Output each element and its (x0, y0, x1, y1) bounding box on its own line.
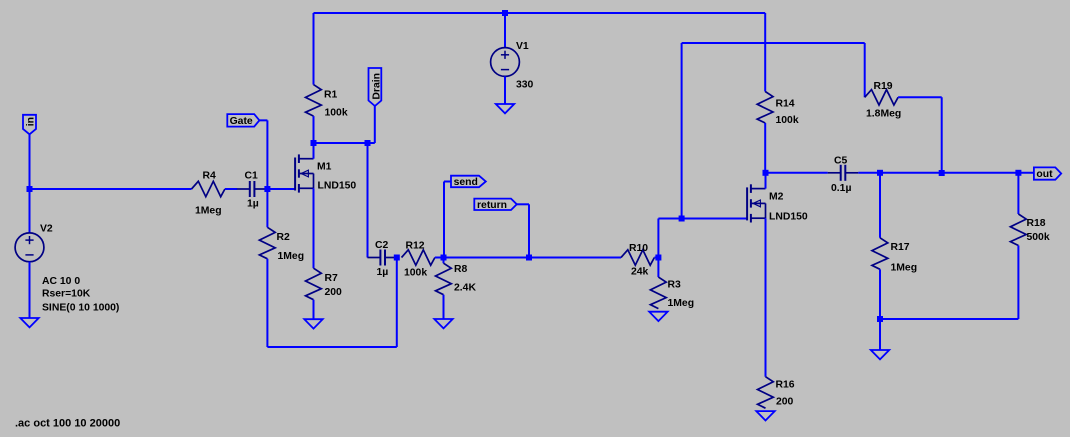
label R7 (325, 273, 339, 284)
label R1 (324, 90, 338, 101)
voltage source V2 (15, 233, 44, 262)
svg-text:100k: 100k (776, 115, 799, 126)
label R16 (776, 380, 795, 391)
svg-text:LND150: LND150 (769, 212, 808, 223)
wire R14 bottom lead (764, 123, 766, 173)
node R17 bottom junction (877, 316, 883, 322)
svg-text:return: return (477, 200, 507, 211)
value Rser=10K (42, 289, 91, 300)
wire M1 source lead (313, 188, 315, 268)
label R2 (277, 232, 291, 243)
wire C1 node to R2 (266, 189, 268, 227)
wire R12 to node (435, 257, 444, 259)
svg-text:SINE(0 10 1000): SINE(0 10 1000) (42, 303, 119, 314)
svg-text:1Meg: 1Meg (195, 206, 222, 217)
value 1Meg R17 (891, 263, 918, 274)
transistor M2 (747, 184, 765, 222)
node M2 gate junction (679, 216, 685, 222)
wire input to R4 (30, 188, 192, 190)
ground R17 (871, 350, 889, 359)
ground R3 (649, 312, 667, 321)
wire mid rail (444, 257, 622, 259)
svg-text:V1: V1 (516, 41, 529, 52)
node return junction (526, 255, 532, 261)
wire send down (443, 182, 445, 258)
resistor R1 (306, 85, 322, 117)
wire M1 drain lead (313, 143, 315, 159)
directive .ac (15, 418, 120, 430)
value 1Meg R3 (668, 298, 695, 309)
label R12 (406, 241, 425, 252)
svg-text:C2: C2 (375, 240, 389, 251)
node drain branch junction (365, 140, 371, 146)
label R3 (668, 280, 682, 291)
wire R14 top lead (764, 13, 766, 92)
svg-text:M1: M1 (317, 162, 332, 173)
wire M2 source lead (765, 218, 767, 377)
wire to gate junction (658, 218, 681, 220)
value 1.8Meg R19 (866, 109, 901, 120)
node R17 junction (877, 170, 883, 176)
value 500k R18 (1027, 232, 1050, 243)
svg-text:Rser=10K: Rser=10K (42, 289, 91, 300)
svg-text:in: in (25, 117, 36, 126)
value 1u C1 (247, 199, 259, 210)
svg-text:R1: R1 (324, 90, 338, 101)
wire R8 to ground (443, 295, 445, 319)
value 1u C2 (377, 267, 389, 278)
wire C5 to out node (858, 172, 1034, 174)
wire R19 left lead (864, 43, 866, 97)
svg-text:1.8Meg: 1.8Meg (866, 109, 901, 120)
svg-text:1µ: 1µ (247, 199, 259, 210)
svg-text:.ac oct 100 10 20000: .ac oct 100 10 20000 (15, 418, 120, 430)
svg-text:Gate: Gate (230, 116, 253, 127)
svg-text:R7: R7 (325, 273, 339, 284)
wire R1 top lead (313, 13, 315, 85)
capacitor C5 (828, 165, 859, 181)
resistor R3 (650, 277, 666, 309)
resistor R7 (306, 268, 322, 300)
node C2 junction (394, 255, 400, 261)
value 330 (516, 80, 534, 91)
svg-text:1Meg: 1Meg (891, 263, 918, 274)
wire R3 top lead (657, 258, 659, 278)
wire V2 top lead (29, 189, 31, 233)
svg-text:M2: M2 (769, 192, 784, 203)
flag Drain (369, 68, 383, 106)
flag in (23, 115, 36, 135)
wire gate junction up (681, 43, 683, 219)
wire R3 node up (657, 219, 659, 258)
wire M2 gate lead (682, 218, 748, 220)
node R19 junction (939, 170, 945, 176)
value LND150 M1 (318, 181, 357, 192)
label R10 (629, 243, 648, 254)
svg-text:R10: R10 (629, 243, 648, 254)
label R4 (203, 171, 217, 182)
wire R17 top lead (879, 173, 881, 238)
wire V2 bottom lead (29, 262, 31, 318)
capacitor C1 (237, 181, 268, 197)
value LND150 M2 (769, 212, 808, 223)
wire feedback rail (682, 42, 865, 44)
wire Drain flag pole (374, 106, 376, 143)
wire return down (528, 204, 530, 257)
value SINE(0 10 1000) (42, 303, 119, 314)
wire V1 top lead (504, 13, 506, 48)
resistor R8 (436, 263, 452, 295)
value 100k R14 (776, 115, 799, 126)
value 0.1u C5 (831, 183, 851, 194)
label V2 (40, 224, 53, 235)
svg-text:Drain: Drain (371, 73, 382, 100)
label C5 (834, 156, 848, 167)
wire R17 ground lead (879, 319, 881, 350)
svg-text:0.1µ: 0.1µ (831, 183, 851, 194)
wire R7 to ground (313, 300, 315, 320)
svg-text:R8: R8 (454, 264, 468, 275)
svg-text:R14: R14 (776, 99, 795, 110)
node M1 drain junction (311, 140, 317, 146)
resistor R10 (621, 250, 654, 265)
svg-text:200: 200 (776, 397, 794, 408)
wire R18 top lead (1017, 173, 1019, 214)
value 200 R16 (776, 397, 794, 408)
svg-text:1Meg: 1Meg (278, 251, 305, 262)
svg-text:send: send (454, 177, 478, 188)
svg-text:1µ: 1µ (377, 267, 389, 278)
wire bottom rail (267, 258, 396, 348)
node R8 junction (441, 255, 447, 261)
label C1 (245, 171, 259, 182)
resistor R2 (259, 227, 275, 258)
flag return (474, 199, 517, 211)
flag Gate (227, 114, 259, 127)
wire R18 bottom lead (880, 246, 1018, 320)
value 200 R7 (325, 287, 343, 298)
svg-text:R3: R3 (668, 280, 682, 291)
wire M2 drain to C5 (766, 172, 828, 174)
svg-text:R17: R17 (891, 242, 910, 253)
resistor R16 (758, 377, 774, 409)
wire Gate down (266, 120, 268, 189)
svg-text:R2: R2 (277, 232, 291, 243)
svg-text:24k: 24k (631, 267, 649, 278)
wire drain node (314, 142, 375, 144)
svg-text:1Meg: 1Meg (668, 298, 695, 309)
svg-text:out: out (1036, 169, 1053, 180)
svg-text:2.4K: 2.4K (454, 283, 476, 294)
ground R16 (756, 411, 774, 420)
svg-text:C1: C1 (245, 171, 259, 182)
value 2.4K R8 (454, 283, 476, 294)
ground V2 (20, 318, 38, 327)
wire send stub (444, 181, 451, 183)
label R18 (1027, 218, 1046, 229)
wire V1 bottom lead (504, 76, 506, 104)
svg-text:330: 330 (516, 80, 534, 91)
wire drain to C2 (367, 143, 369, 258)
value 24k R10 (631, 267, 649, 278)
label R19 (874, 81, 893, 92)
resistor R12 (402, 250, 435, 265)
svg-text:500k: 500k (1027, 232, 1050, 243)
voltage source V1 (491, 48, 520, 77)
wire Gate flag stub (259, 119, 267, 121)
wire return stub (517, 203, 529, 205)
svg-text:100k: 100k (325, 108, 348, 119)
label M1 (317, 162, 332, 173)
node R3 junction (655, 255, 661, 261)
value AC 10 0 (42, 276, 80, 287)
resistor R19 (865, 90, 898, 105)
resistor R14 (757, 92, 773, 124)
value 1Meg R4 (195, 206, 222, 217)
wire R17 bottom lead (879, 269, 881, 319)
svg-text:C5: C5 (834, 156, 848, 167)
resistor R17 (872, 238, 888, 269)
svg-text:R4: R4 (203, 171, 217, 182)
label R14 (776, 99, 795, 110)
wire R1 bottom lead (313, 116, 315, 143)
label R8 (454, 264, 468, 275)
resistor R4 (192, 181, 225, 196)
svg-text:200: 200 (325, 287, 343, 298)
ground R7 (304, 319, 322, 328)
svg-text:LND150: LND150 (318, 181, 357, 192)
svg-text:AC 10 0: AC 10 0 (42, 276, 80, 287)
wire R2 to bottom rail (266, 259, 268, 347)
svg-text:R18: R18 (1027, 218, 1046, 229)
transistor M1 (295, 154, 313, 192)
resistor R18 (1010, 214, 1026, 246)
flag out (1034, 167, 1061, 180)
node gate junction (264, 186, 270, 192)
capacitor C2 (367, 250, 398, 266)
ground V1 (496, 104, 514, 113)
label R17 (891, 242, 910, 253)
svg-text:100k: 100k (404, 268, 427, 279)
svg-text:R16: R16 (776, 380, 795, 391)
value 100k R1 (325, 108, 348, 119)
label M2 (769, 192, 784, 203)
node M2 drain junction (763, 170, 769, 176)
svg-text:V2: V2 (40, 224, 53, 235)
wire top rail (314, 12, 766, 14)
wire R10 to node (654, 257, 658, 259)
ground R8 (434, 319, 452, 328)
value 100k R12 (404, 268, 427, 279)
node input junction (27, 186, 33, 192)
svg-text:R19: R19 (874, 81, 893, 92)
label C2 (375, 240, 389, 251)
svg-text:R12: R12 (406, 241, 425, 252)
label V1 (516, 41, 529, 52)
node out junction (1015, 170, 1021, 176)
flag send (451, 176, 486, 189)
value 1Meg R2 (278, 251, 305, 262)
wire gate lead M1 (267, 188, 295, 190)
wire in flag to node (29, 134, 31, 189)
wire R19 right lead (898, 97, 942, 173)
wire M2 drain lead (765, 173, 767, 189)
node V+ junction (502, 10, 508, 16)
wire R8 top lead (443, 258, 445, 264)
wire R4 to C1 (225, 188, 237, 190)
